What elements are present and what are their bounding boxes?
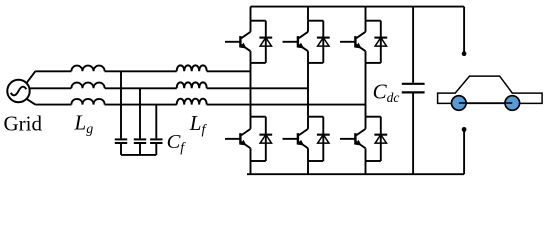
wire: top bus to upper cell leg 3 [365, 7, 367, 21]
capacitor Cf phase A (tap wire + plates) [115, 71, 127, 155]
wire: leg 2 midpoint vertical (phase node) [307, 63, 309, 117]
EV car rear wheel [505, 96, 520, 111]
wire: top bus drop to EV + terminal [463, 7, 465, 52]
AC grid source symbol (circle with sine wave) [7, 80, 29, 102]
capacitor Cdc (DC-link) [402, 7, 425, 175]
label Cdc [373, 80, 400, 105]
EV car front wheel [452, 96, 467, 111]
wire: positive DC bus (top) [251, 6, 465, 8]
wire phase C to inverter leg 3 [207, 104, 366, 106]
transistor S3 upper IGBT with antiparallel diode (leg 2) [283, 21, 330, 63]
inductor Lg phase B [71, 83, 104, 89]
wire: top bus to upper cell leg 2 [307, 7, 309, 21]
wire phase B segment before Lg [30, 87, 72, 89]
inductor Lg phase A [71, 66, 104, 72]
inductor Lf phase B [177, 82, 207, 88]
wire: bottom bus rise to EV - terminal [463, 131, 465, 174]
inductor Lg phase C [71, 99, 104, 105]
wire: leg 3 midpoint vertical (phase node) [365, 63, 367, 117]
wire phase A between Lg and Lf [105, 70, 177, 72]
transistor S6 lower IGBT with antiparallel diode (leg 2) [283, 117, 330, 161]
wire phase C segment before Lg [35, 104, 71, 106]
label Grid [4, 112, 43, 136]
label Lf [189, 111, 208, 138]
wire: source to phase A (diagonal up) [26, 71, 35, 83]
svg-text:Grid: Grid [4, 112, 43, 136]
label Lg [74, 110, 94, 137]
wire phase A to inverter leg 1 [207, 70, 251, 72]
wire phase B between Lg and Lf [105, 87, 177, 89]
wire: lower cell leg 2 to bottom bus [307, 161, 309, 174]
inductor Lf phase C [177, 99, 207, 105]
label Cf [167, 131, 187, 156]
transistor S5 upper IGBT with antiparallel diode (leg 3) [340, 21, 387, 63]
wire: lower cell leg 1 to bottom bus [250, 161, 252, 174]
EV car body outline [438, 76, 542, 103]
transistor S4 lower IGBT with antiparallel diode (leg 1) [225, 117, 272, 161]
wire phase B to inverter leg 2 [207, 87, 308, 89]
wire: Cf common bottom bus [121, 154, 156, 156]
capacitor Cf phase C (tap wire + plates) [150, 105, 162, 155]
wire: lower cell leg 3 to bottom bus [365, 161, 367, 174]
node: EV positive terminal dot [462, 51, 467, 56]
wire phase A segment before Lg [35, 70, 71, 72]
transistor S2 lower IGBT with antiparallel diode (leg 3) [340, 117, 387, 161]
wire: negative DC bus (bottom) [247, 173, 464, 175]
wire phase C between Lg and Lf [105, 104, 177, 106]
capacitor Cf phase B (tap wire + plates) [134, 88, 146, 155]
node: EV negative terminal dot [462, 127, 467, 132]
wire: leg 1 midpoint vertical (phase node) [250, 63, 252, 117]
inductor Lf phase A [177, 65, 207, 71]
transistor S1 upper IGBT with antiparallel diode (leg 1) [225, 21, 272, 63]
wire: top bus to upper cell leg 1 [250, 7, 252, 21]
wire: source to phase C (diagonal down) [26, 99, 35, 105]
EV car underbody line [459, 102, 513, 104]
